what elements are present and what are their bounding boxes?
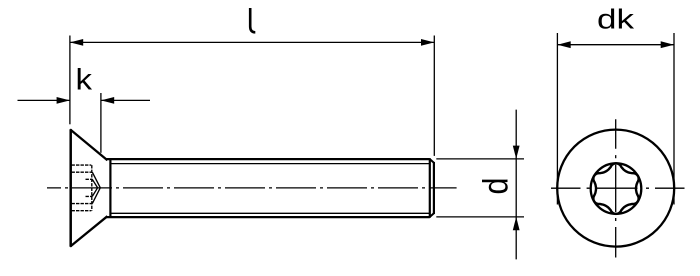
svg-text:d: d bbox=[476, 178, 515, 195]
svg-text:dk: dk bbox=[597, 4, 634, 35]
svg-text:k: k bbox=[76, 64, 94, 97]
